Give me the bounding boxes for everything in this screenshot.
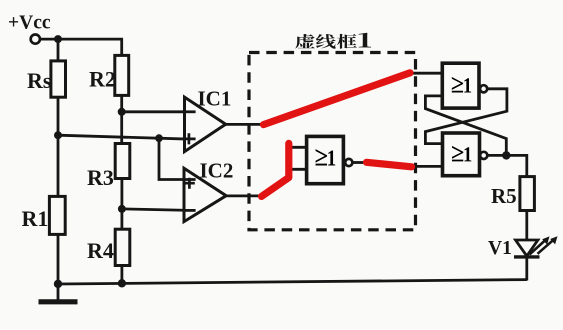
svg-text:V1: V1 (488, 238, 512, 259)
label +Vcc (8, 13, 51, 34)
wire: top rail from Vcc node to R2 column, down into R2 (58, 39, 122, 55)
wire: R2 bottom to R3 top (120, 95, 123, 143)
node: Rs/R1 junction (54, 131, 62, 139)
svg-text:IC1: IC1 (198, 86, 232, 110)
wire: stub from red diagonal exit to gate U3 input 1 (405, 72, 442, 75)
op-amp IC2 (184, 168, 226, 221)
wire: IC2 output (226, 194, 263, 197)
label IC2 (200, 159, 234, 183)
ground (39, 284, 78, 302)
label R1 (22, 206, 49, 231)
resistor R2 (115, 55, 129, 95)
svg-text:R5: R5 (491, 184, 517, 208)
wire (red): IC2 output up to U2 inputs (262, 143, 289, 196)
svg-text:Rs: Rs (27, 68, 52, 93)
resistor Rs (51, 61, 66, 97)
wire: R2/R3 node to IC1 inverting input (122, 110, 196, 113)
wire: Rs/R1 node to IC1 non-inverting input (58, 135, 195, 139)
label R4 (87, 238, 114, 263)
node: U4 output junction (502, 151, 510, 159)
node: ground-rail left junction (54, 280, 62, 288)
OR gate U4 (latch bottom) (443, 133, 480, 176)
node: R3/R4 junction (118, 205, 126, 213)
svg-text:IC2: IC2 (200, 159, 234, 183)
node: IC1 output / red junction (261, 122, 266, 127)
OR gate U2 (in dashed box) (307, 136, 344, 183)
label Rs (27, 68, 52, 93)
wire: R3 bottom to R4 top (121, 178, 124, 229)
node: Vcc junction (54, 35, 62, 43)
wire: Vcc terminal to top rail (40, 38, 58, 41)
wire: R1 bottom down to ground rail (57, 234, 60, 284)
OR gate U3 (latch top) (442, 63, 479, 108)
bubble: U3 output inverter (480, 85, 487, 92)
label IC1 (198, 86, 232, 110)
label 虚线框1 (drawn glyphs) (295, 33, 371, 49)
wire: U4 output node up and cross to U3 input 2 (425, 96, 506, 155)
label R3 (87, 165, 114, 190)
node: R2/R3 junction (118, 108, 126, 116)
wire: Rs bottom down to R1 top (57, 97, 60, 196)
svg-text:R1: R1 (22, 206, 49, 231)
wire: U4 output to R5 column (487, 155, 527, 176)
wire: IC1 output (226, 123, 264, 126)
wire: R5 bottom to LED (525, 211, 528, 241)
wire (red): IC1 output to U3 input 1 (264, 73, 411, 125)
wire: ground rail (bottom) (58, 280, 527, 284)
wire: Vcc node down to Rs top (57, 38, 60, 61)
resistor R1 (49, 196, 65, 234)
wire: R4 bottom to ground rail (121, 266, 124, 284)
bubble: U4 output inverter (480, 152, 487, 159)
wire (red): U2 output to U4 lower input (367, 162, 412, 167)
svg-text:R4: R4 (87, 238, 114, 263)
node: branch junction (155, 134, 163, 142)
svg-text:+Vcc: +Vcc (8, 13, 51, 34)
resistor R4 (115, 229, 130, 265)
op-amp IC1 (185, 97, 226, 152)
wire: branch down to IC2 non-inverting input (159, 138, 195, 179)
label R5 (491, 184, 517, 208)
node: R4 bottom junction (118, 279, 126, 287)
terminal: +Vcc open circle (31, 35, 40, 44)
wire: gate U2 output stub (352, 161, 367, 164)
svg-text:R3: R3 (87, 165, 114, 190)
LED V1 (514, 236, 558, 257)
wire: R3/R4 node to IC2 lower input (122, 209, 195, 211)
wire: stub from red to gate U4 lower input (408, 165, 443, 168)
wire: U3 output, down and cross to U4 input 1 (425, 89, 507, 144)
label V1 (488, 238, 512, 259)
wire: gate U2 input stubs (288, 147, 307, 169)
svg-text:R2: R2 (89, 66, 116, 91)
dashed box 虚线框1 (249, 53, 416, 230)
resistor R3 (115, 144, 130, 179)
wire: LED cathode down to ground rail (525, 257, 528, 281)
resistor R5 (520, 177, 535, 211)
bubble: U2 output inverter (345, 159, 352, 166)
label R2 (89, 66, 116, 91)
